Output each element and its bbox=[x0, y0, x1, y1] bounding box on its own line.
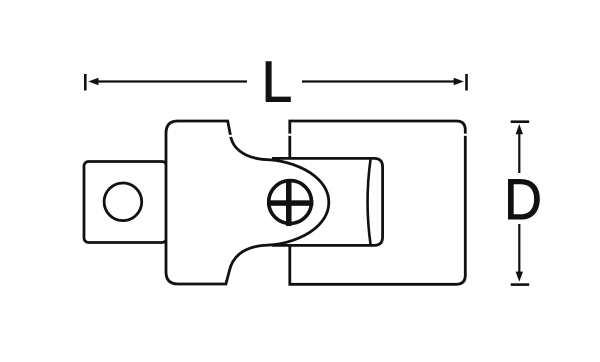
pin cross horizontal bar bbox=[267, 200, 313, 206]
svg-text:D: D bbox=[504, 167, 542, 232]
dimension L: right extension tick bbox=[465, 74, 468, 91]
dimension D: lower line segment bbox=[518, 224, 520, 272]
svg-text:L: L bbox=[262, 49, 293, 113]
pin head circle bbox=[269, 181, 312, 224]
dimension D: bottom extension tick bbox=[511, 283, 530, 286]
dimension L: right arrowhead bbox=[454, 78, 464, 85]
right yoke ear (cylindrical cap, edge-on) bbox=[272, 158, 383, 245]
dimension L: left arrowhead bbox=[88, 78, 98, 85]
dimension L: left line segment bbox=[97, 80, 247, 82]
pin cross vertical bar bbox=[286, 179, 292, 226]
dimension L: left extension tick bbox=[84, 74, 87, 91]
dimension D: bottom arrowhead bbox=[516, 272, 523, 282]
right body (socket end) bbox=[290, 121, 466, 284]
left yoke body with ear around pin bbox=[166, 121, 329, 284]
dimension D: top arrowhead bbox=[516, 124, 523, 134]
dimension D: upper line segment bbox=[518, 132, 520, 173]
notch break on right body left edge bbox=[287, 134, 292, 136]
dimension L: right line segment bbox=[302, 80, 455, 82]
square drive tang bbox=[84, 162, 167, 243]
right yoke ear cap edge line bbox=[368, 160, 371, 245]
dimension D: top extension tick bbox=[511, 120, 530, 123]
notch break on left yoke upper step bbox=[228, 135, 234, 137]
notch break on right body right edge bbox=[463, 134, 468, 136]
tang ball-detent hole bbox=[104, 183, 142, 221]
